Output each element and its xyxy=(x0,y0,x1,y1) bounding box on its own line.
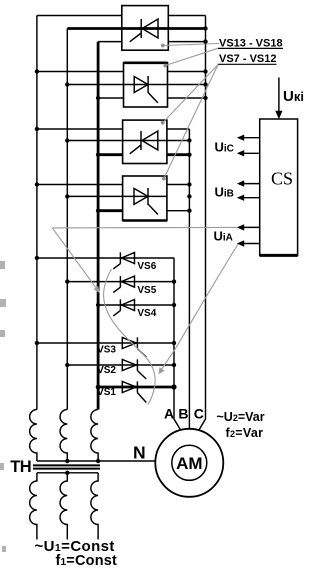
wire box1 output top xyxy=(168,15,205,17)
wire CS gate output arrow UiA upper xyxy=(237,224,260,230)
wire box1 input bottom xyxy=(98,41,122,43)
svg-text:AM: AM xyxy=(176,454,202,473)
node junctions on neutral line xyxy=(65,459,100,475)
wire phase bus 2 (transformer secondary phase B vertical) xyxy=(66,29,68,410)
node gray callout dot box4 xyxy=(162,177,166,181)
label VS13 - VS18 with underline xyxy=(218,38,283,50)
wire box2 output top xyxy=(168,71,206,73)
wire phase bus 3 (transformer secondary phase C vertical, bold) xyxy=(97,42,100,410)
wire box3 output middle xyxy=(167,140,190,142)
thyristor VS4 xyxy=(113,299,134,316)
thyristor VS6 xyxy=(113,252,134,269)
thyristor VS1 xyxy=(122,381,146,402)
thyristor VS5 xyxy=(113,276,134,293)
svg-text:VS2: VS2 xyxy=(97,365,116,376)
transformer TH primary winding phase 2 xyxy=(60,473,67,540)
wire primary neutral line xyxy=(37,472,98,474)
node junctions on output bus A xyxy=(171,279,176,389)
wire output bus A vertical to motor xyxy=(174,258,181,431)
node gray callout dot box2 xyxy=(163,64,167,68)
thyristor group box VS16-VS18 (box2) xyxy=(124,63,168,107)
svg-text:VS1: VS1 xyxy=(97,387,116,398)
wire phase bus 1 (transformer secondary phase A vertical) xyxy=(36,16,38,410)
svg-text:VS3: VS3 xyxy=(97,344,116,355)
svg-text:~U2=Var: ~U2=Var xyxy=(217,410,265,424)
gray callout line to VS4-VS6 gates with arrowhead xyxy=(52,228,100,293)
gray callout line UiA lower arrow to VS1-VS3 gates with arrowhead xyxy=(159,244,238,374)
wire box1 input/output middle bold through xyxy=(67,27,205,30)
node junctions on bus 2 xyxy=(65,82,69,367)
thyristor VS3 xyxy=(122,337,146,357)
wire box2 middle through xyxy=(67,84,205,86)
svg-text:f2=Var: f2=Var xyxy=(226,426,264,440)
wire VS5 row xyxy=(67,281,174,283)
control block CS xyxy=(260,119,298,256)
wire VS3 row xyxy=(37,342,174,344)
svg-text:Uкi: Uкi xyxy=(283,88,304,105)
gray callout line VS7-VS12 label to box4 xyxy=(164,65,218,179)
svg-text:VS5: VS5 xyxy=(137,285,156,296)
transformer TH core line lower xyxy=(33,468,100,470)
wire CS input arrow Uki xyxy=(275,78,282,120)
wire box3 middle through xyxy=(67,140,167,142)
thyristor group box VS13-VS15 (box1) xyxy=(122,6,169,51)
wire box2 input bottom xyxy=(98,97,123,99)
node junctions on output bus C xyxy=(203,26,207,100)
wire output bus C vertical to motor xyxy=(199,16,206,431)
wire CS gate output arrow UiA lower xyxy=(237,240,260,246)
wire CS gate output arrow UiB upper xyxy=(237,180,260,186)
motor AM outer circle xyxy=(155,429,223,497)
wire box4 input bottom bold xyxy=(98,209,123,212)
gray callout arc VS6 gate to VS1 gate xyxy=(104,269,156,405)
wire VS2 row xyxy=(67,364,174,366)
wire VS6 row xyxy=(37,257,174,259)
wire output bus B vertical to motor xyxy=(188,129,190,428)
wire box2 input top xyxy=(37,71,124,73)
label VS7 - VS12 with underline xyxy=(218,53,277,65)
wire box2 output bottom xyxy=(168,97,206,99)
transformer TH primary winding phase 1 xyxy=(30,473,37,540)
gray callout line box1 to VS13-VS18 label xyxy=(163,44,219,46)
gray callout line UiA upper arrow horizontal xyxy=(52,226,237,229)
node gray callout dot box3 xyxy=(161,121,165,125)
svg-text:A: A xyxy=(164,405,174,421)
wire box3 input bottom bold xyxy=(98,153,123,156)
transformer TH secondary winding phase 3 xyxy=(91,410,98,462)
node junctions on bus 1 xyxy=(35,69,39,345)
wire CS gate output arrow UiC lower xyxy=(237,150,260,156)
thyristor VS2 xyxy=(122,359,146,379)
svg-text:CS: CS xyxy=(271,169,293,189)
svg-text:C: C xyxy=(194,405,204,421)
transformer TH core line upper xyxy=(33,464,100,466)
wire neutral N line to motor xyxy=(37,460,155,462)
node junctions on bus 3 xyxy=(96,96,101,390)
wire box3 output top xyxy=(167,128,190,130)
wire box4 input top xyxy=(37,184,123,186)
wire box3 output bottom bold xyxy=(167,153,190,156)
wire box4 middle through xyxy=(67,195,167,197)
svg-text:VS6: VS6 xyxy=(137,261,156,272)
thyristor group box VS7-VS9 (box3) xyxy=(123,120,167,163)
wire box1 input top xyxy=(37,15,122,17)
wire CS gate output arrow UiC upper xyxy=(237,135,260,141)
svg-text:B: B xyxy=(178,405,188,421)
svg-text:VS4: VS4 xyxy=(137,308,156,319)
gray callout line VS7-VS12 label to box3 xyxy=(163,65,218,123)
gray callout line VS13-VS18 label to box2 xyxy=(165,48,218,65)
wire VS4 row xyxy=(98,304,174,306)
svg-text:TH: TH xyxy=(10,458,31,476)
wire CS gate output arrow UiB lower xyxy=(237,195,260,201)
scan noise marks left margin xyxy=(0,261,6,552)
wire box3 input top xyxy=(37,128,123,130)
node gray callout dot box1 xyxy=(161,44,165,48)
svg-text:VS7 - VS12: VS7 - VS12 xyxy=(219,53,276,65)
transformer TH secondary winding phase 1 xyxy=(30,410,37,462)
wire box4 output top xyxy=(167,184,190,186)
svg-text:VS13 - VS18: VS13 - VS18 xyxy=(219,38,283,50)
wire VS1 row bold segments xyxy=(98,386,174,389)
transformer TH secondary winding phase 2 xyxy=(60,410,67,462)
svg-text:N: N xyxy=(133,443,146,463)
node junctions on output bus B xyxy=(187,138,191,213)
wire box1 output bottom xyxy=(168,41,205,43)
motor AM inner circle xyxy=(172,445,207,480)
thyristor group box VS10-VS12 (box4) xyxy=(123,176,167,221)
transformer TH primary winding phase 3 xyxy=(91,473,98,540)
wire box4 output bottom xyxy=(167,210,190,212)
